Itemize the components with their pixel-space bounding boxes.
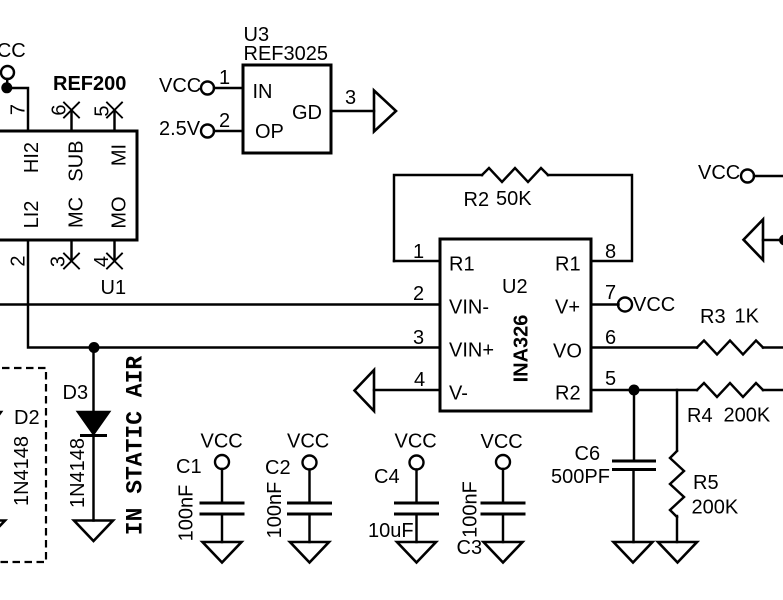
svg-text:REF200: REF200 <box>53 73 126 95</box>
svg-text:VIN+: VIN+ <box>449 340 494 362</box>
resistor R4 <box>697 383 763 397</box>
svg-text:7: 7 <box>605 282 616 304</box>
wire VCC right <box>754 175 783 177</box>
ground C3 <box>484 542 523 563</box>
ground D2 <box>0 521 5 542</box>
svg-text:D2: D2 <box>14 407 40 429</box>
junction dot VCC <box>1 82 12 93</box>
IC U1 REF200 body <box>0 131 137 240</box>
node VCC terminal top-left circle <box>1 66 14 79</box>
diode D2 fragment <box>0 412 1 434</box>
svg-text:V+: V+ <box>555 297 580 319</box>
wire pin 4 V- <box>374 389 440 391</box>
feedback wire with resistor R2 <box>394 175 482 261</box>
ground C4 <box>397 542 436 563</box>
svg-text:500PF: 500PF <box>551 466 610 488</box>
svg-text:8: 8 <box>605 241 616 263</box>
wire pin2 U3 <box>214 130 243 132</box>
svg-text:VCC: VCC <box>159 75 201 97</box>
svg-text:MI: MI <box>109 144 131 166</box>
capacitor C3 <box>496 455 510 469</box>
terminal circle VCC pin7 <box>618 298 632 312</box>
ground D3 <box>74 521 113 542</box>
wire R4 to edge <box>763 389 783 391</box>
svg-text:100nF: 100nF <box>264 482 286 539</box>
svg-text:1N4148: 1N4148 <box>11 436 33 506</box>
ground R5 <box>658 542 697 563</box>
svg-text:100nF: 100nF <box>460 481 482 538</box>
IC U2 INA326 body <box>440 239 591 411</box>
wire circle to junction <box>6 79 8 84</box>
svg-text:200K: 200K <box>724 405 771 427</box>
wire pin1 U3 <box>214 87 243 89</box>
resistor R5 <box>676 390 678 450</box>
svg-text:2: 2 <box>413 283 424 305</box>
svg-text:REF3025: REF3025 <box>244 43 329 65</box>
svg-text:100nF: 100nF <box>176 485 198 542</box>
svg-text:R4: R4 <box>687 405 713 427</box>
wire R3 to edge <box>763 346 783 348</box>
svg-text:INA326: INA326 <box>511 315 533 383</box>
svg-text:C6: C6 <box>575 443 601 465</box>
svg-text:VIN-: VIN- <box>449 297 489 319</box>
ground right-pointing U3 <box>374 91 396 132</box>
svg-text:6: 6 <box>49 104 71 115</box>
svg-text:4: 4 <box>414 369 425 391</box>
svg-text:VO: VO <box>553 341 582 363</box>
wire pin 6 VO <box>591 346 697 348</box>
junction dot node D3 top <box>89 342 100 353</box>
pin 5 stub U1 <box>113 110 115 131</box>
svg-text:LI2: LI2 <box>21 201 43 229</box>
svg-text:1N4148: 1N4148 <box>67 438 89 508</box>
capacitor C4 <box>410 456 424 470</box>
svg-text:3: 3 <box>48 256 70 267</box>
svg-text:HI2: HI2 <box>21 142 43 173</box>
svg-text:MO: MO <box>109 196 131 228</box>
wire pin3 U3 <box>331 110 374 112</box>
terminal circle U3 pin1 <box>201 82 214 95</box>
dashed box D2 <box>0 368 46 562</box>
svg-text:2.5V: 2.5V <box>159 118 201 140</box>
capacitor C6 <box>633 390 635 460</box>
svg-text:IN STATIC AIR: IN STATIC AIR <box>123 356 149 536</box>
capacitor C1 <box>215 455 229 469</box>
wire pin 7 U2 <box>591 303 619 305</box>
svg-text:V-: V- <box>449 383 468 405</box>
pin 3 stub U1 <box>70 240 72 261</box>
svg-text:C1: C1 <box>176 456 202 478</box>
resistor R3 <box>697 341 763 355</box>
wire triangle to dot <box>763 239 783 241</box>
node VCC top right <box>741 170 754 183</box>
resistor R2 <box>482 168 548 182</box>
svg-text:3: 3 <box>345 87 356 109</box>
wire pin 5 R2 <box>591 389 697 391</box>
svg-text:1: 1 <box>413 241 424 263</box>
svg-text:VCC: VCC <box>481 431 523 453</box>
svg-text:VCC: VCC <box>395 431 437 453</box>
svg-text:1K: 1K <box>735 306 760 328</box>
wire R2 to pin 8 <box>548 175 632 261</box>
ground C1 <box>203 542 242 563</box>
no-connect X pin 3 <box>64 254 79 269</box>
svg-text:R1: R1 <box>555 254 581 276</box>
svg-text:IN: IN <box>253 81 273 103</box>
svg-text:2: 2 <box>8 255 30 266</box>
svg-text:GD: GD <box>292 102 322 124</box>
svg-text:7: 7 <box>8 104 30 115</box>
IC U3 REF3025 body <box>243 65 331 153</box>
svg-text:200K: 200K <box>692 497 739 519</box>
svg-text:5: 5 <box>92 105 114 116</box>
svg-text:VCC: VCC <box>287 431 329 453</box>
svg-text:R2: R2 <box>555 383 581 405</box>
pin 1 stub U2 <box>394 260 440 262</box>
svg-text:C4: C4 <box>374 466 400 488</box>
svg-text:U1: U1 <box>101 277 127 299</box>
svg-text:10uF: 10uF <box>368 520 414 542</box>
svg-text:OP: OP <box>255 121 284 143</box>
svg-text:C3: C3 <box>457 537 483 559</box>
svg-text:4: 4 <box>91 256 113 267</box>
junction dot pin5 node <box>629 385 640 396</box>
pin 2 wire U1 down and right to U2 VIN+ <box>28 240 440 348</box>
pin 4 stub U1 <box>113 240 115 261</box>
svg-text:3: 3 <box>413 327 424 349</box>
ground left-pointing right edge <box>744 220 764 261</box>
svg-text:SUB: SUB <box>66 140 88 181</box>
ground C2 <box>290 542 329 563</box>
svg-text:6: 6 <box>605 327 616 349</box>
svg-text:VCC: VCC <box>633 294 675 316</box>
svg-text:R5: R5 <box>693 472 719 494</box>
ground C6 <box>614 542 653 563</box>
pin 6 stub U1 <box>70 110 72 131</box>
no-connect X pin 4 <box>107 254 122 269</box>
svg-text:VCC: VCC <box>698 162 740 184</box>
svg-text:R3: R3 <box>700 306 726 328</box>
ground left-pointing V- <box>355 370 375 411</box>
svg-text:D3: D3 <box>63 382 89 404</box>
wire VIN- net <box>0 303 440 305</box>
svg-text:MC: MC <box>66 197 88 228</box>
wire VCC to U1 pin7 <box>7 88 28 131</box>
terminal circle U3 pin2 <box>201 125 214 138</box>
svg-text:VCC: VCC <box>201 431 243 453</box>
svg-text:R1: R1 <box>449 254 475 276</box>
svg-text:5: 5 <box>605 368 616 390</box>
svg-text:VCC: VCC <box>0 40 26 62</box>
svg-text:R2: R2 <box>464 189 490 211</box>
svg-text:50K: 50K <box>496 188 532 210</box>
junction dot right edge <box>779 235 783 246</box>
no-connect X pin 5 <box>107 103 122 118</box>
diode D3 <box>92 348 94 413</box>
capacitor C2 <box>303 456 317 470</box>
svg-text:1: 1 <box>219 67 230 89</box>
svg-text:2: 2 <box>219 110 230 132</box>
svg-text:C2: C2 <box>265 457 291 479</box>
svg-text:U2: U2 <box>502 276 528 298</box>
no-connect X pin 6 <box>64 103 79 118</box>
